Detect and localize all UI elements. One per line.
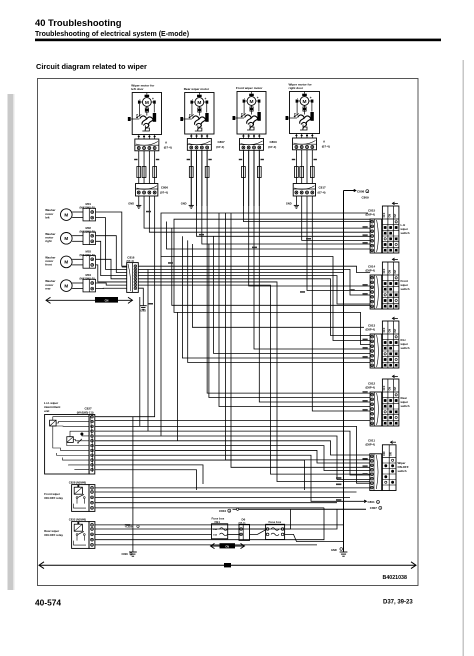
svg-text:M01: M01 (86, 202, 92, 206)
wire w26 (138, 279, 370, 336)
header rule (35, 39, 441, 42)
svg-text:(MA2(W)(-2)): (MA2(W)(-2)) (80, 206, 96, 210)
wire w58 (160, 257, 162, 436)
wire w16 (259, 151, 370, 402)
ground below M2 pin1 (190, 151, 192, 205)
svg-text:M: M (64, 236, 68, 241)
L.H. wiper intermittent unit U1 (44, 401, 95, 474)
svg-text:Troubleshooting of electrical: Troubleshooting of electrical system (E-… (35, 31, 189, 38)
wire washer M04 to C816 (96, 283, 127, 285)
svg-text:C810: C810 (219, 509, 227, 513)
wire w24 (138, 272, 343, 274)
wire w15 (254, 151, 370, 349)
connector C806 (136, 184, 158, 197)
svg-text:(MA2(W)(-2)): (MA2(W)(-2)) (80, 253, 96, 257)
wire w28 (138, 285, 369, 474)
svg-text:Fuse box: Fuse box (269, 520, 282, 524)
switch C811 (Wiper ON-OFF switch) (366, 439, 409, 491)
wire washer M01 to C816 (96, 212, 127, 266)
svg-text:C803: C803 (270, 140, 278, 144)
wire w25 (138, 276, 370, 304)
wire w49 (95, 502, 337, 504)
wiper motor M5 left door (128, 83, 172, 151)
wire w10 (197, 151, 371, 236)
svg-text:D37, 39-23: D37, 39-23 (383, 600, 413, 606)
relay C828 (Front wiper ON-OFF relay) (44, 480, 95, 511)
svg-text:C815: C815 (368, 209, 376, 213)
svg-text:OFF: OFF (383, 327, 386, 332)
wire w53 (95, 533, 212, 535)
svg-text:front: front (45, 263, 52, 267)
svg-text:40 Troubleshooting: 40 Troubleshooting (35, 17, 122, 28)
destination arrow C801 (364, 500, 366, 503)
svg-text:switch: switch (401, 404, 410, 408)
svg-text:Circuit diagram related to wip: Circuit diagram related to wiper (36, 62, 147, 71)
svg-text:ON-OFF relay: ON-OFF relay (44, 533, 63, 537)
wire w34 (209, 244, 370, 398)
wire w29 (122, 266, 127, 268)
svg-text:ON: ON (390, 452, 393, 456)
svg-text:unit: unit (44, 409, 50, 413)
relay C832 (Rear wiper ON-OFF relay) (44, 517, 95, 548)
svg-text:M: M (64, 283, 68, 288)
fuse interconnect wires (228, 528, 239, 530)
switch C814 (Front wiper switch) (366, 258, 410, 309)
wire w54 (95, 508, 324, 540)
left scan shadow strip (8, 94, 14, 590)
svg-text:M04: M04 (86, 273, 92, 277)
wire w23 (138, 269, 370, 295)
svg-text:INT: INT (394, 269, 397, 273)
wire w8 (192, 244, 364, 327)
svg-text:C807: C807 (218, 140, 226, 144)
fuse box FB1 (212, 517, 228, 539)
svg-text:C811: C811 (368, 439, 375, 443)
svg-text:M: M (64, 212, 68, 217)
svg-text:C816: C816 (127, 256, 135, 260)
washer motor rear (45, 279, 83, 291)
wire w5 (167, 222, 371, 250)
svg-text:OFF: OFF (383, 385, 386, 390)
wire w1 (144, 196, 370, 228)
svg-text:CN: CN (105, 298, 109, 302)
wire M3 drops with diodes (242, 150, 244, 206)
wire w9 (214, 236, 371, 353)
wiper motor M6 rear (180, 87, 225, 150)
wire w35 (219, 213, 370, 407)
wire w45 (95, 470, 197, 490)
svg-text:INT: INT (394, 386, 397, 390)
svg-text:GND: GND (128, 201, 134, 205)
svg-text:(MA2(W)(-2)): (MA2(W)(-2)) (80, 229, 96, 233)
wire w7 (174, 219, 370, 344)
svg-text:A: A (323, 140, 326, 144)
svg-text:GND: GND (286, 201, 292, 205)
wire w59 (177, 312, 179, 440)
washer motor front (45, 256, 83, 268)
svg-text:M: M (303, 99, 307, 105)
svg-text:C809: C809 (362, 195, 370, 199)
svg-text:ON: ON (389, 214, 392, 218)
wire w11 (202, 151, 370, 244)
wire w56 (139, 297, 141, 427)
diagram frame (38, 79, 419, 586)
wire M2 drops with diodes (190, 150, 192, 206)
svg-text:C814: C814 (368, 265, 376, 269)
switch C815 (L.H wiper switch) (366, 202, 410, 253)
svg-text:Rear wiper motor: Rear wiper motor (184, 87, 210, 91)
svg-text:C832 (M2W6): C832 (M2W6) (69, 517, 86, 521)
wire w47 (95, 491, 357, 493)
switch C813 (R.H wiper switch) (366, 317, 410, 368)
wire w48 (95, 496, 350, 498)
svg-text:B4021038: B4021038 (383, 575, 408, 581)
svg-text:ON: ON (389, 387, 392, 391)
svg-text:ON: ON (389, 329, 392, 333)
svg-text:(07-4): (07-4) (160, 191, 168, 195)
connector M02 (80, 226, 96, 245)
ground below C817 pin1 (295, 196, 297, 205)
wire code ticks (363, 226, 368, 228)
washer motor right (45, 232, 83, 244)
svg-text:C801: C801 (368, 500, 376, 504)
svg-text:C817: C817 (319, 186, 327, 190)
svg-text:C827: C827 (85, 406, 93, 410)
connector M03 (80, 250, 96, 269)
svg-text:right: right (45, 239, 51, 243)
svg-text:(MA2(W)(-2)): (MA2(W)(-2)) (80, 277, 96, 281)
wiper motor M7 front (233, 86, 278, 150)
wire washer M02 to C816 (96, 236, 127, 273)
wire w30 (182, 236, 370, 358)
svg-text:10A: 10A (213, 534, 217, 537)
svg-text:A: A (165, 141, 168, 145)
svg-text:M: M (145, 100, 149, 106)
wire w46 (95, 487, 370, 489)
wire w42 (95, 455, 364, 501)
wire w13 (243, 151, 370, 222)
ground trunk GND1 (center) (343, 191, 345, 552)
svg-text:GND: GND (140, 309, 146, 313)
svg-text:M03: M03 (86, 250, 92, 254)
svg-text:M: M (197, 100, 201, 106)
wire w50 (95, 507, 324, 509)
svg-text:CN: CN (225, 545, 229, 548)
wire w17 (302, 196, 370, 240)
svg-text:INT: INT (394, 213, 397, 217)
wire w21 (231, 213, 370, 467)
wire M4 drops with diodes (295, 150, 297, 184)
wire w20 (225, 213, 369, 460)
svg-text:M02: M02 (86, 226, 92, 230)
svg-text:switch: switch (401, 346, 410, 350)
wiper motor M8 right door (286, 82, 330, 150)
ground below C806 pin1 (138, 196, 140, 205)
svg-text:ON-OFF relay: ON-OFF relay (44, 496, 63, 500)
svg-text:right door: right door (289, 86, 304, 90)
wire w22 (138, 266, 370, 272)
svg-text:40-574: 40-574 (35, 598, 61, 608)
right scan edge line (463, 60, 464, 656)
wire w27 (138, 282, 369, 482)
svg-text:INT: INT (394, 328, 397, 332)
svg-text:GND: GND (331, 548, 337, 552)
svg-text:(07-4): (07-4) (318, 191, 326, 195)
svg-text:rear: rear (45, 286, 51, 290)
wire w38 (95, 436, 370, 480)
svg-text:(07-4): (07-4) (164, 146, 172, 150)
wire w41 (95, 450, 370, 463)
svg-text:Front wiper motor: Front wiper motor (236, 86, 263, 90)
wire w36 (95, 426, 370, 483)
wire w43 (95, 460, 305, 490)
harness range arrow (left) (46, 297, 133, 303)
wire w2 (149, 196, 370, 232)
wire w39 (95, 441, 370, 455)
svg-text:OFF: OFF (383, 451, 386, 456)
wire w14 (249, 151, 370, 286)
connector M01 (80, 202, 96, 221)
wire w4 (161, 213, 370, 341)
wire M1 drops with diodes (138, 151, 140, 184)
wire w40 (95, 446, 370, 471)
svg-text:left: left (45, 215, 49, 219)
svg-text:switch: switch (401, 287, 410, 291)
wire w32 (95, 420, 206, 422)
wire w51 (95, 524, 344, 526)
wire w31 (188, 240, 370, 362)
connector D6 (239, 518, 250, 541)
fuse box 2 (266, 520, 285, 540)
wire w18 (307, 196, 370, 291)
svg-text:switch: switch (401, 231, 410, 235)
svg-text:(D8P-4): (D8P-4) (366, 385, 376, 389)
svg-text:D6: D6 (242, 518, 246, 522)
svg-text:(07-4): (07-4) (216, 145, 224, 149)
node C808 / C809 labels (344, 190, 357, 192)
wire w37 (95, 431, 370, 475)
svg-text:OFF: OFF (383, 212, 386, 217)
ground trunk GND2 (left) (132, 417, 134, 552)
wire w52 (95, 509, 337, 529)
full-width harness arrow (39, 562, 416, 569)
wire w3 (95, 196, 155, 417)
harness range arrow (fuse) (211, 543, 245, 548)
svg-text:(D8P-4): (D8P-4) (366, 442, 376, 446)
connector M04 (80, 273, 96, 292)
svg-text:switch: switch (398, 469, 407, 473)
svg-text:(D8P-4): (D8P-4) (366, 327, 376, 331)
wire w12 (207, 151, 370, 393)
wire w57 (147, 270, 149, 431)
svg-text:OFF: OFF (383, 268, 386, 273)
switch C812 (Rear wiper switch) (366, 375, 410, 426)
svg-text:C813: C813 (368, 324, 376, 328)
svg-text:left door: left door (131, 87, 144, 91)
wire w33 (206, 420, 370, 422)
wire w19 (312, 196, 370, 411)
svg-text:(07-4): (07-4) (322, 145, 330, 149)
svg-text:M: M (250, 99, 254, 105)
svg-text:(07-4): (07-4) (268, 145, 276, 149)
svg-text:C812: C812 (368, 382, 376, 386)
svg-text:C829: C829 (122, 552, 129, 556)
ground below C816 (138, 288, 143, 305)
connector C816 (127, 256, 139, 293)
svg-text:C808: C808 (357, 189, 365, 193)
svg-text:ON: ON (389, 270, 392, 274)
wire w44 (95, 465, 203, 484)
svg-text:GND: GND (181, 201, 187, 205)
wire w55 (95, 544, 317, 546)
svg-text:(MA2(W)(-11)): (MA2(W)(-11)) (77, 410, 94, 414)
svg-text:C807: C807 (370, 506, 378, 510)
wire washer M03 to C816 (96, 259, 127, 279)
svg-text:(D8P-4): (D8P-4) (366, 268, 376, 272)
svg-text:M: M (64, 260, 68, 265)
wire w6 (172, 228, 370, 305)
svg-text:C806: C806 (161, 186, 169, 190)
washer motor left (45, 208, 83, 220)
connector C817 (293, 184, 315, 197)
svg-text:C828 (M2W6): C828 (M2W6) (69, 480, 86, 484)
